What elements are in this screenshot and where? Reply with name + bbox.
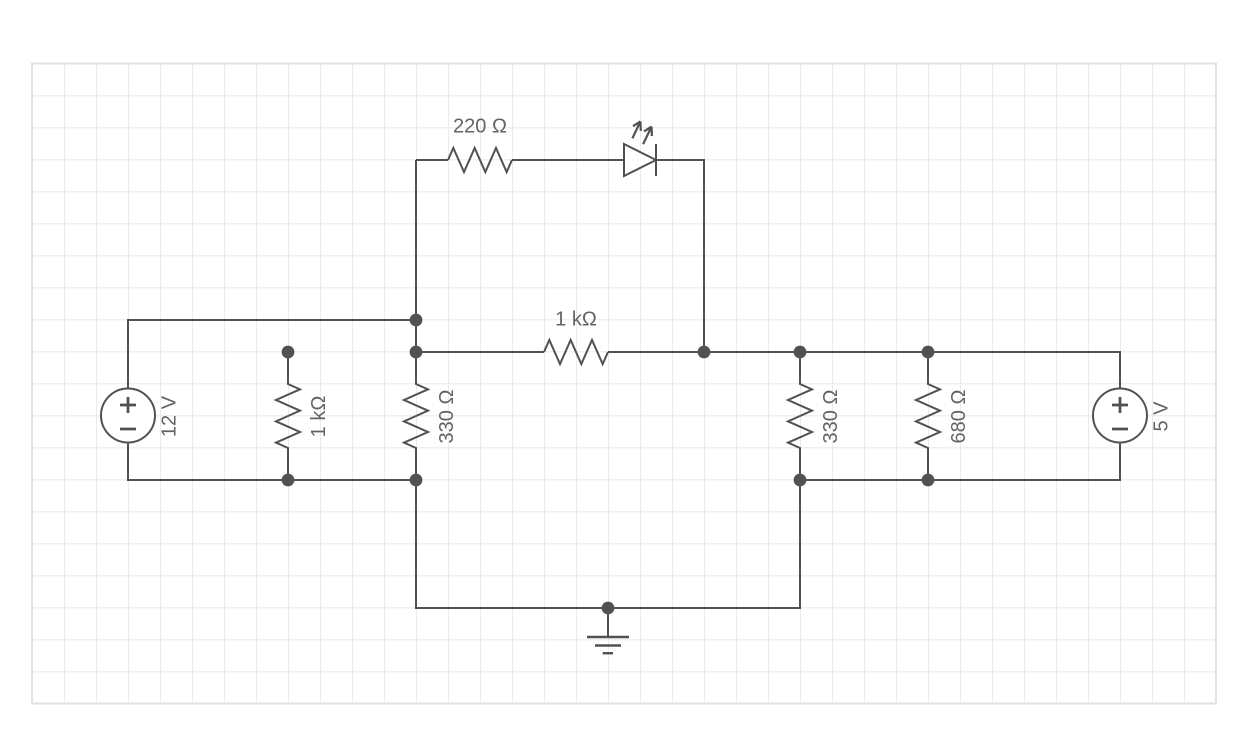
svg-text:12 V: 12 V <box>159 395 181 437</box>
svg-text:220 Ω: 220 Ω <box>453 116 507 138</box>
svg-text:1 kΩ: 1 kΩ <box>308 396 330 438</box>
svg-text:1 kΩ: 1 kΩ <box>555 309 597 331</box>
svg-text:5 V: 5 V <box>1151 401 1173 432</box>
svg-text:680 Ω: 680 Ω <box>948 390 970 444</box>
svg-text:330 Ω: 330 Ω <box>820 390 842 444</box>
svg-text:330 Ω: 330 Ω <box>436 390 458 444</box>
